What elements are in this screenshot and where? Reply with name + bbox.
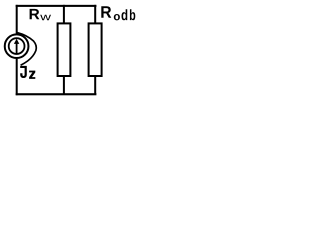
wire: left rail lower segment: [16, 59, 18, 95]
current source Jz: outer circle: [5, 34, 29, 58]
wire: stub from Rodb to bottom rail: [94, 76, 96, 94]
wire: left rail upper segment: [16, 5, 18, 34]
label R (of Rw): [30, 9, 40, 19]
label J (of Jz): [20, 66, 27, 78]
resistor Rw body: [58, 23, 71, 76]
label subscript w (of Rw): [40, 15, 51, 20]
label subscript d (of Rodb): [122, 9, 128, 20]
current source Jz: arrow shaft: [16, 43, 18, 55]
wire: stub from top rail to Rodb: [94, 5, 96, 24]
resistor Rodb body: [89, 23, 102, 76]
wire: bottom rail: [16, 93, 97, 95]
label R (of Rodb): [101, 6, 111, 17]
current source Jz: arrowhead: [14, 39, 19, 44]
leader swoosh from source to label Jz: [17, 33, 36, 66]
label subscript b (of Rodb): [130, 9, 135, 20]
label subscript z (of Jz): [29, 71, 35, 79]
current source Jz: inner circle: [9, 38, 25, 54]
wire: stub from Rw to bottom rail: [63, 76, 65, 94]
label subscript o (of Rodb): [114, 14, 120, 20]
wire: stub from top rail to Rw: [63, 5, 65, 24]
wire: top rail: [16, 5, 97, 7]
background: [0, 0, 141, 101]
